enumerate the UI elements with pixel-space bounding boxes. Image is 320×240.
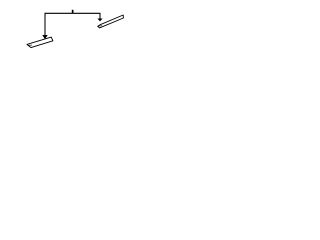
arrow A1 (current into left conductor) [42, 35, 47, 39]
conductor bar B1 (left slab) [27, 37, 53, 48]
arrow A2 (current into right conductor) [97, 19, 102, 22]
conductor bar B2 (right slab) [98, 15, 124, 28]
wire [45, 13, 100, 35]
node I label tick [72, 10, 74, 14]
